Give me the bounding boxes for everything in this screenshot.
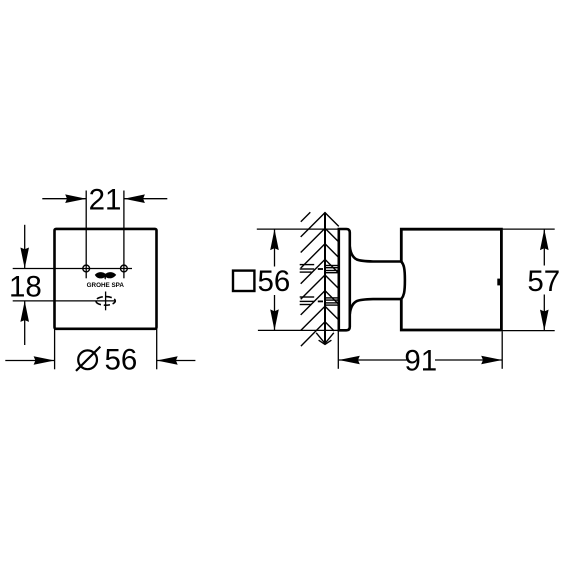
svg-text:GROHE SPA: GROHE SPA: [87, 282, 125, 289]
svg-text:91: 91: [404, 344, 437, 377]
svg-text:56: 56: [258, 265, 291, 298]
svg-text:18: 18: [9, 271, 42, 304]
svg-text:21: 21: [89, 184, 122, 217]
svg-text:57: 57: [527, 265, 560, 298]
svg-text:56: 56: [105, 344, 138, 377]
